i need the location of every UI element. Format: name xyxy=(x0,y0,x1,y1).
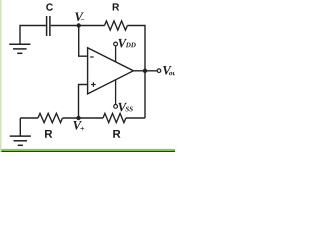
VSS supply terminal xyxy=(114,80,118,109)
label V- xyxy=(75,13,84,22)
label R (bottom-right) xyxy=(113,130,120,138)
resistor R1 (top feedback) xyxy=(105,21,128,30)
label Vout xyxy=(163,66,178,75)
wire: bottom rail left segment xyxy=(20,117,38,119)
ground GND1 (top-left) xyxy=(9,44,30,53)
Vout terminal circle xyxy=(157,69,161,73)
node V- junction dot xyxy=(77,23,81,27)
label R (top) xyxy=(113,3,120,10)
label C xyxy=(46,3,53,10)
wire: top resistor to right rail down to bottom rail xyxy=(127,26,145,119)
wire: top-left ground lead up to top rail xyxy=(20,26,46,45)
op-amp non-inverting input plus sign xyxy=(91,82,96,87)
op-amp inverting input minus sign xyxy=(90,56,94,58)
wire: op-amp output to Vout terminal xyxy=(133,70,157,72)
ground GND2 (bottom-left) xyxy=(10,118,31,145)
resistor R2 (bottom-left) xyxy=(38,113,63,122)
wire: capacitor to node V- to top resistor xyxy=(51,25,105,27)
capacitor C xyxy=(47,16,50,36)
label R (bottom-left) xyxy=(45,130,52,138)
op-amp U1 xyxy=(88,48,134,94)
wire: bottom rail middle segment xyxy=(63,117,104,119)
wire: node V+ up to non-inverting input xyxy=(79,85,88,119)
resistor R3 (bottom-right) xyxy=(103,113,126,122)
label VDD xyxy=(118,39,135,48)
label VSS xyxy=(118,103,132,112)
node V+ junction dot xyxy=(76,116,80,120)
wire: node V- down to inverting input xyxy=(79,26,88,57)
label V+ xyxy=(73,121,84,130)
wire: bottom rail right segment xyxy=(126,117,145,119)
node output junction dot xyxy=(143,69,147,73)
VDD supply terminal xyxy=(114,42,118,62)
